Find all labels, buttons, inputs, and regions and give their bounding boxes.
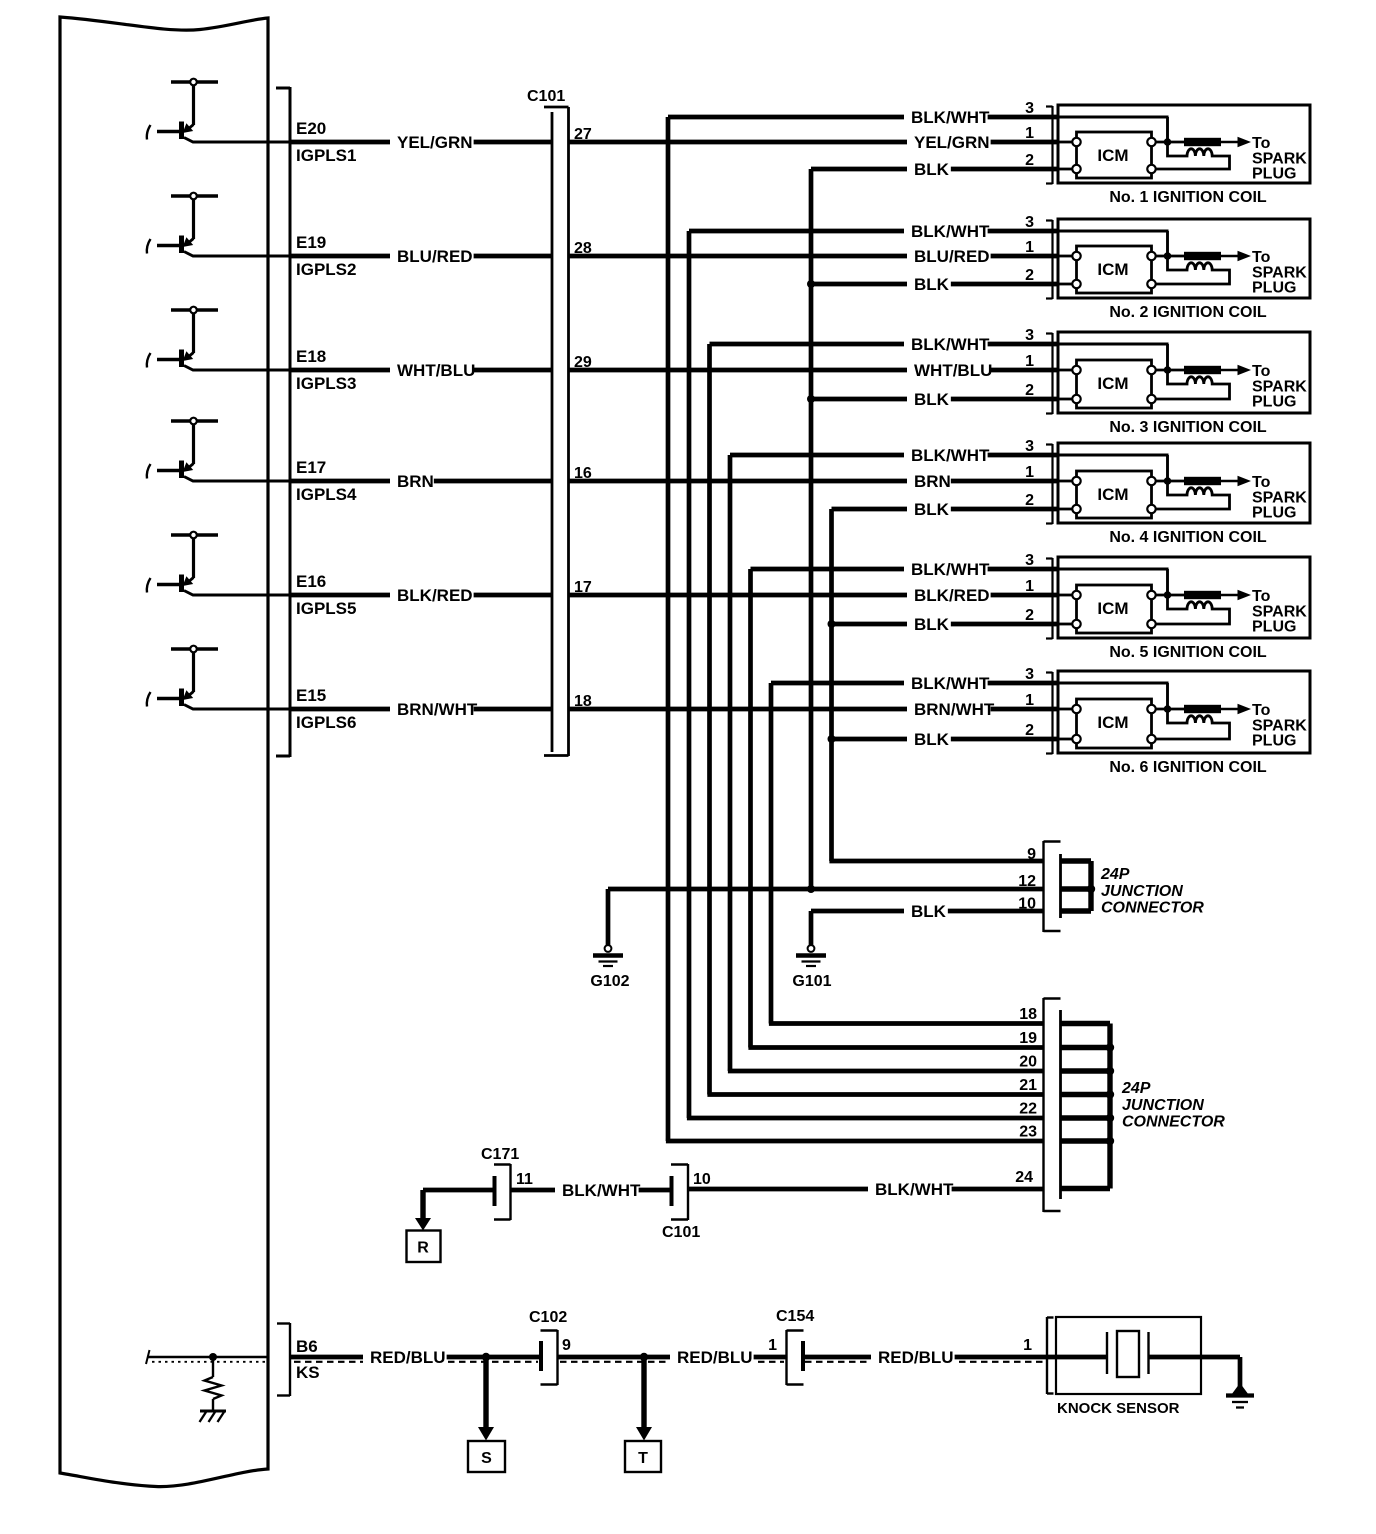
wire BLK/WHT to No.1 ignition coil pin 3 <box>668 106 1169 142</box>
wire BLK/WHT to junction connector #2 pin 22 <box>687 1116 1044 1121</box>
primary winding L1a <box>1156 145 1230 169</box>
svg-text:BLU/RED: BLU/RED <box>914 247 990 266</box>
connector C102 <box>529 1309 567 1385</box>
svg-text:2: 2 <box>1025 152 1034 169</box>
svg-text:BLK/RED: BLK/RED <box>914 586 990 605</box>
wire RED/BLU stripe (dashed) <box>152 1361 1044 1363</box>
svg-text:C171: C171 <box>481 1146 519 1163</box>
wire BLK/WHT to junction connector #2 pin 18 <box>769 1021 1044 1026</box>
ICM (igniter module) U5 <box>1072 585 1155 633</box>
wire BRN/WHT from C101 pin 18 to No.6 ignition coil pin 1 <box>569 698 1073 720</box>
transistor Q5 (IGPLS5 output driver) <box>147 532 291 595</box>
ignition coil No.1 assembly box <box>1058 105 1310 183</box>
ICM (igniter module) U1 <box>1072 132 1155 178</box>
svg-text:1: 1 <box>1023 1337 1032 1354</box>
wire YEL/GRN from C101 pin 27 to No.1 ignition coil pin 1 <box>569 131 1073 153</box>
secondary winding L6b (to spark plug) <box>1184 705 1221 713</box>
wire BLK/WHT to No.2 ignition coil pin 3 <box>689 220 1169 256</box>
svg-text:2: 2 <box>1025 607 1034 624</box>
svg-text:No. 3 IGNITION COIL: No. 3 IGNITION COIL <box>1109 419 1267 436</box>
svg-text:E15: E15 <box>296 686 326 705</box>
svg-text:R: R <box>417 1240 429 1257</box>
svg-text:E18: E18 <box>296 347 326 366</box>
24P junction connector #2 body <box>1044 998 1061 1212</box>
node: coil 3 primary junction <box>1156 366 1184 374</box>
svg-text:BLK/WHT: BLK/WHT <box>911 560 990 579</box>
wire BLK/WHT vertical run (coil 5 pin 3 to 24P junction connector pin 19) <box>748 569 753 1048</box>
ignition coil No.5 assembly box <box>1058 557 1310 638</box>
svg-text:PLUG: PLUG <box>1252 733 1296 750</box>
svg-text:20: 20 <box>1019 1054 1037 1071</box>
svg-text:BLK: BLK <box>911 902 947 921</box>
wire BLK/WHT to junction connector #2 pin 19 <box>748 1045 1043 1050</box>
node: S branch junction <box>482 1353 490 1361</box>
wire BLK to No.6 ignition coil pin 2 <box>832 728 1073 750</box>
svg-text:PLUG: PLUG <box>1252 394 1296 411</box>
svg-text:IGPLS4: IGPLS4 <box>296 485 357 504</box>
svg-text:1: 1 <box>768 1337 777 1354</box>
wire from G102 to junction connector pin 12 <box>608 887 1044 892</box>
wire BRN/WHT from ECM pin E15 to C101 pin <box>290 698 551 720</box>
svg-text:3: 3 <box>1025 552 1034 569</box>
junction connector #2 internal bus <box>1061 1024 1115 1189</box>
svg-text:KNOCK SENSOR: KNOCK SENSOR <box>1057 1400 1180 1417</box>
wire BLK/WHT vertical run (coil 3 pin 3 to 24P junction connector pin 21) <box>707 344 712 1095</box>
terminal box T <box>625 1441 661 1472</box>
svg-text:3: 3 <box>1025 666 1034 683</box>
transistor Q1 (IGPLS1 output driver) <box>147 79 291 142</box>
svg-text:No. 6 IGNITION COIL: No. 6 IGNITION COIL <box>1109 759 1267 776</box>
wire BLK/WHT to No.5 ignition coil pin 3 <box>751 558 1169 595</box>
svg-text:BLK: BLK <box>914 275 950 294</box>
svg-text:3: 3 <box>1025 438 1034 455</box>
connector bracket at coil 3 <box>1046 333 1053 414</box>
svg-text:BRN: BRN <box>397 472 434 491</box>
connector bracket at coil 1 <box>1046 106 1053 184</box>
transistor Q2 (IGPLS2 output driver) <box>147 193 291 256</box>
svg-text:No. 4 IGNITION COIL: No. 4 IGNITION COIL <box>1109 529 1267 546</box>
svg-text:No. 5 IGNITION COIL: No. 5 IGNITION COIL <box>1109 644 1267 661</box>
node E18 / IGPLS3 pin labels <box>296 347 356 393</box>
svg-text:G102: G102 <box>590 973 629 990</box>
svg-text:1: 1 <box>1025 464 1034 481</box>
connector bracket at coil 6 <box>1046 672 1053 754</box>
svg-text:10: 10 <box>693 1171 711 1188</box>
wire WHT/BLU from C101 pin 29 to No.3 ignition coil pin 1 <box>569 359 1073 381</box>
ECM connector pin bracket (B6) <box>277 1323 290 1396</box>
ICM (igniter module) U3 <box>1072 360 1155 408</box>
knock sensor piezo element <box>1056 1331 1240 1377</box>
svg-text:RED/BLU: RED/BLU <box>677 1348 753 1367</box>
arrow: coil 2 high tension output <box>1221 251 1251 261</box>
svg-text:JUNCTION: JUNCTION <box>1122 1097 1204 1114</box>
svg-text:To: To <box>1252 363 1271 380</box>
node E17 / IGPLS4 pin labels <box>296 458 357 504</box>
connector C101 (pin 10 inline symbol) <box>662 1164 700 1241</box>
wire BRN from ECM pin E17 to C101 pin <box>290 470 551 492</box>
svg-text:B6: B6 <box>296 1337 318 1356</box>
wire BLK to No.2 ignition coil pin 2 <box>811 273 1073 295</box>
wire BLK/WHT from C101 to junction connector #2 pin 24 <box>688 1178 1044 1200</box>
ICM (igniter module) U2 <box>1072 246 1155 293</box>
wire BLK/WHT vertical run (coil 2 pin 3 to 24P junction connector pin 22) <box>687 231 692 1118</box>
svg-text:PLUG: PLUG <box>1252 280 1296 297</box>
svg-text:ICM: ICM <box>1097 146 1128 165</box>
svg-text:JUNCTION: JUNCTION <box>1101 883 1183 900</box>
wire BLK/WHT to No.3 ignition coil pin 3 <box>710 333 1169 370</box>
wire drop with arrow to S <box>478 1357 494 1441</box>
wire BLK/WHT vertical run (coil 1 pin 3 to 24P junction connector pin 23) <box>666 117 671 1141</box>
svg-text:24P: 24P <box>1100 866 1130 883</box>
node E15 / IGPLS6 pin labels <box>296 686 356 732</box>
wire KS inside ECM (knock sensor input) <box>146 1350 268 1364</box>
svg-text:BRN: BRN <box>914 472 951 491</box>
wire BLK/WHT to No.4 ignition coil pin 3 <box>730 444 1169 481</box>
label: To SPARK PLUG (coil 6) <box>1252 702 1307 750</box>
wire drop with arrow to R <box>415 1190 431 1231</box>
wire BLK to No.1 ignition coil pin 2 <box>811 158 1073 180</box>
svg-text:PLUG: PLUG <box>1252 505 1296 522</box>
wire RED/BLU from C154 to knock sensor <box>803 1346 1056 1368</box>
svg-text:YEL/GRN: YEL/GRN <box>914 133 990 152</box>
svg-text:18: 18 <box>1019 1006 1037 1023</box>
svg-text:11: 11 <box>516 1171 533 1188</box>
svg-text:ICM: ICM <box>1097 713 1128 732</box>
svg-text:22: 22 <box>1019 1101 1037 1118</box>
svg-text:E16: E16 <box>296 572 326 591</box>
svg-text:To: To <box>1252 249 1271 266</box>
svg-text:G101: G101 <box>792 973 831 990</box>
svg-text:BLK/WHT: BLK/WHT <box>911 222 990 241</box>
svg-text:BLK: BLK <box>914 500 950 519</box>
svg-text:BLK: BLK <box>914 615 950 634</box>
node E19 / IGPLS2 pin labels <box>296 233 356 279</box>
svg-text:IGPLS3: IGPLS3 <box>296 374 356 393</box>
ground G101 symbol <box>792 945 831 990</box>
terminal box S <box>468 1441 505 1472</box>
svg-text:BLK: BLK <box>914 160 950 179</box>
svg-text:2: 2 <box>1025 267 1034 284</box>
label: To SPARK PLUG (coil 5) <box>1252 588 1307 636</box>
label: To SPARK PLUG (coil 4) <box>1252 474 1307 522</box>
label: To SPARK PLUG (coil 2) <box>1252 249 1307 297</box>
svg-text:C101: C101 <box>662 1224 700 1241</box>
svg-text:9: 9 <box>1027 846 1036 863</box>
24P junction connector #1 body <box>1044 841 1061 932</box>
wire BLK common bus for coils 4-6 (to junction connector pin 9) <box>828 509 836 861</box>
arrow: coil 5 high tension output <box>1221 590 1251 600</box>
node E20 / IGPLS1 pin labels <box>296 119 356 165</box>
junction connector #1 internal bus <box>1061 861 1096 911</box>
wire BLK/RED from C101 pin 17 to No.5 ignition coil pin 1 <box>569 584 1073 606</box>
svg-text:BLK: BLK <box>914 730 950 749</box>
wire BLK to No.4 ignition coil pin 2 <box>832 498 1073 520</box>
node: coil 6 primary junction <box>1156 705 1184 713</box>
svg-text:E17: E17 <box>296 458 326 477</box>
wire RED/BLU from C102 pin 9 to C154 <box>558 1346 787 1368</box>
connector bracket at coil 2 <box>1046 220 1053 299</box>
svg-text:BRN/WHT: BRN/WHT <box>914 700 995 719</box>
secondary winding L4b (to spark plug) <box>1184 477 1221 485</box>
svg-text:C101: C101 <box>527 88 565 105</box>
primary winding L6a <box>1156 712 1230 739</box>
svg-text:WHT/BLU: WHT/BLU <box>914 361 992 380</box>
svg-text:To: To <box>1252 702 1271 719</box>
svg-text:1: 1 <box>1025 239 1034 256</box>
wire BLK/RED from ECM pin E16 to C101 pin <box>290 584 551 606</box>
svg-text:IGPLS1: IGPLS1 <box>296 146 356 165</box>
label: 24P JUNCTION CONNECTOR #2 <box>1121 1080 1225 1131</box>
arrow: coil 4 high tension output <box>1221 476 1251 486</box>
ignition coil No.4 assembly box <box>1058 443 1310 523</box>
node: coil 4 primary junction <box>1156 477 1184 485</box>
wire BLK/WHT to junction connector #2 pin 20 <box>728 1069 1044 1074</box>
svg-text:ICM: ICM <box>1097 374 1128 393</box>
arrow: coil 1 high tension output <box>1221 137 1251 147</box>
terminal box R <box>407 1231 441 1263</box>
svg-text:BLK/WHT: BLK/WHT <box>911 674 990 693</box>
svg-text:IGPLS6: IGPLS6 <box>296 713 356 732</box>
wire BLK to No.5 ignition coil pin 2 <box>832 613 1073 635</box>
label: 24P JUNCTION CONNECTOR #1 <box>1100 866 1204 917</box>
ignition coil No.6 assembly box <box>1058 671 1310 753</box>
node E16 / IGPLS5 pin labels <box>296 572 356 618</box>
knock sensor body box <box>1056 1317 1201 1394</box>
svg-text:12: 12 <box>1018 873 1036 890</box>
svg-text:BLK/RED: BLK/RED <box>397 586 473 605</box>
svg-text:BLK/WHT: BLK/WHT <box>911 446 990 465</box>
node: coil 1 primary junction <box>1156 138 1184 146</box>
svg-text:3: 3 <box>1025 214 1034 231</box>
ground G102 symbol <box>590 945 629 990</box>
node: coil 5 primary junction <box>1156 591 1184 599</box>
wire BRN from C101 pin 16 to No.4 ignition coil pin 1 <box>569 470 1073 492</box>
svg-text:1: 1 <box>1025 353 1034 370</box>
ignition coil No.2 assembly box <box>1058 219 1310 298</box>
wire drop with arrow to T <box>636 1357 652 1441</box>
ground G102 lead <box>606 889 611 945</box>
svg-text:BLK/WHT: BLK/WHT <box>911 335 990 354</box>
svg-text:9: 9 <box>562 1337 571 1354</box>
svg-text:BLU/RED: BLU/RED <box>397 247 473 266</box>
svg-text:BLK: BLK <box>914 390 950 409</box>
svg-text:To: To <box>1252 474 1271 491</box>
svg-text:IGPLS5: IGPLS5 <box>296 599 356 618</box>
label: To SPARK PLUG (coil 3) <box>1252 363 1307 411</box>
svg-text:2: 2 <box>1025 492 1034 509</box>
svg-text:3: 3 <box>1025 100 1034 117</box>
svg-text:1: 1 <box>1025 692 1034 709</box>
connector C171 <box>481 1146 519 1220</box>
connector C154 (mirrored) <box>776 1308 814 1385</box>
primary winding L4a <box>1156 484 1230 509</box>
wire knock sensor to chassis ground <box>1238 1357 1243 1388</box>
svg-text:No. 2 IGNITION COIL: No. 2 IGNITION COIL <box>1109 304 1267 321</box>
svg-text:To: To <box>1252 588 1271 605</box>
svg-text:BLK/WHT: BLK/WHT <box>562 1181 641 1200</box>
connector bracket at knock sensor <box>1047 1317 1054 1394</box>
svg-text:WHT/BLU: WHT/BLU <box>397 361 475 380</box>
wire BLK/WHT from C171 to tachometer circuit (R) <box>423 1188 494 1193</box>
arrow: coil 6 high tension output <box>1221 704 1251 714</box>
transistor Q3 (IGPLS3 output driver) <box>147 307 291 370</box>
ignition coil No.3 assembly box <box>1058 332 1310 413</box>
svg-text:C102: C102 <box>529 1309 567 1326</box>
svg-text:S: S <box>481 1450 492 1467</box>
wire BLK/WHT to junction connector #2 pin 21 <box>707 1092 1043 1097</box>
svg-text:ICM: ICM <box>1097 599 1128 618</box>
arrow: coil 3 high tension output <box>1221 365 1251 375</box>
svg-text:ICM: ICM <box>1097 260 1128 279</box>
svg-text:3: 3 <box>1025 327 1034 344</box>
connector bracket at coil 4 <box>1046 444 1053 524</box>
svg-text:PLUG: PLUG <box>1252 619 1296 636</box>
svg-text:1: 1 <box>1025 578 1034 595</box>
svg-text:21: 21 <box>1019 1077 1037 1094</box>
node: T branch junction <box>640 1353 648 1361</box>
wire BLK/WHT from C171 pin 11 to C101 pin 10 <box>511 1179 672 1201</box>
connector bracket at coil 5 <box>1046 558 1053 639</box>
wire BLK/WHT vertical run (coil 4 pin 3 to 24P junction connector pin 20) <box>728 455 733 1071</box>
svg-text:23: 23 <box>1019 1124 1037 1141</box>
wire RED/BLU from ECM pin B6 to C102 <box>290 1346 541 1368</box>
svg-text:E19: E19 <box>296 233 326 252</box>
wire BLK/WHT vertical run (coil 6 pin 3 to 24P junction connector pin 18) <box>769 683 774 1024</box>
wire BLK to No.3 ignition coil pin 2 <box>811 388 1073 410</box>
svg-text:T: T <box>638 1450 648 1467</box>
connector C101 (main bulkhead connector bar) <box>527 88 569 756</box>
svg-text:24: 24 <box>1015 1169 1033 1186</box>
svg-text:KS: KS <box>296 1363 320 1382</box>
wire WHT/BLU from ECM pin E18 to C101 pin <box>290 359 551 381</box>
ECM/PCM module box (torn edges) <box>60 17 268 1487</box>
svg-text:24P: 24P <box>1121 1080 1151 1097</box>
svg-text:10: 10 <box>1018 896 1036 913</box>
ECM connector pin bracket (E15-E20) <box>276 87 290 757</box>
node B6 / KS pin labels <box>296 1337 320 1382</box>
secondary winding L2b (to spark plug) <box>1184 252 1221 260</box>
svg-text:2: 2 <box>1025 382 1034 399</box>
svg-text:BLK/WHT: BLK/WHT <box>911 108 990 127</box>
resistor (ECM internal, KS pull-down) <box>205 1357 222 1410</box>
ICM (igniter module) U4 <box>1072 471 1155 518</box>
chassis ground (knock sensor) <box>1226 1383 1254 1408</box>
svg-text:19: 19 <box>1019 1030 1037 1047</box>
svg-text:RED/BLU: RED/BLU <box>370 1348 446 1367</box>
secondary winding L3b (to spark plug) <box>1184 366 1221 374</box>
primary winding L5a <box>1156 598 1230 624</box>
node: coil 2 primary junction <box>1156 252 1184 260</box>
transistor Q6 (IGPLS6 output driver) <box>147 646 291 709</box>
wire BLU/RED from ECM pin E19 to C101 pin <box>290 245 551 267</box>
svg-text:IGPLS2: IGPLS2 <box>296 260 356 279</box>
wire BLK/WHT to junction connector #2 pin 23 <box>666 1139 1044 1144</box>
svg-text:ICM: ICM <box>1097 485 1128 504</box>
svg-text:To: To <box>1252 135 1271 152</box>
svg-text:RED/BLU: RED/BLU <box>878 1348 954 1367</box>
svg-text:PLUG: PLUG <box>1252 166 1296 183</box>
wire BLU/RED from C101 pin 28 to No.2 ignition coil pin 1 <box>569 245 1073 267</box>
svg-text:2: 2 <box>1025 722 1034 739</box>
svg-text:1: 1 <box>1025 125 1034 142</box>
ground G101 lead <box>809 911 814 945</box>
svg-text:BLK/WHT: BLK/WHT <box>875 1180 954 1199</box>
svg-text:CONNECTOR: CONNECTOR <box>1101 900 1204 917</box>
secondary winding L1b (to spark plug) <box>1184 138 1221 146</box>
primary winding L3a <box>1156 373 1230 399</box>
secondary winding L5b (to spark plug) <box>1184 591 1221 599</box>
primary winding L2a <box>1156 259 1230 284</box>
svg-text:No. 1 IGNITION COIL: No. 1 IGNITION COIL <box>1109 189 1267 206</box>
wire BLK from G101 to junction connector pin 10 <box>811 900 1044 922</box>
label: To SPARK PLUG (coil 1) <box>1252 135 1307 183</box>
svg-text:C154: C154 <box>776 1308 814 1325</box>
ICM (igniter module) U6 <box>1072 699 1155 748</box>
svg-text:YEL/GRN: YEL/GRN <box>397 133 473 152</box>
transistor Q4 (IGPLS4 output driver) <box>147 418 291 481</box>
svg-text:BRN/WHT: BRN/WHT <box>397 700 478 719</box>
wire from BLK bus (coils 4-6) to junction connector pin 9 <box>829 859 1043 864</box>
wire YEL/GRN from ECM pin E20 to C101 pin <box>290 131 551 153</box>
svg-text:E20: E20 <box>296 119 326 138</box>
wire BLK common bus for coils 1-3 (to G101 junction) <box>807 169 815 893</box>
svg-text:CONNECTOR: CONNECTOR <box>1122 1114 1225 1131</box>
ground (ECM internal, hatched) <box>200 1411 227 1422</box>
wire BLK/WHT to No.6 ignition coil pin 3 <box>771 672 1169 709</box>
